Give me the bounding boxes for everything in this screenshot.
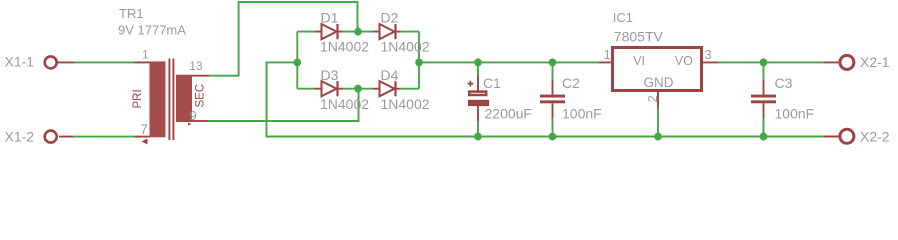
- svg-text:9: 9: [190, 109, 197, 123]
- svg-text:1N4002: 1N4002: [320, 39, 369, 55]
- svg-text:3: 3: [705, 48, 712, 62]
- svg-text:C1: C1: [483, 75, 501, 91]
- svg-text:SEC: SEC: [195, 84, 207, 108]
- svg-text:9V 1777mA: 9V 1777mA: [118, 23, 186, 38]
- svg-text:IC1: IC1: [613, 10, 633, 25]
- svg-text:D4: D4: [381, 67, 399, 83]
- svg-text:1: 1: [604, 48, 611, 62]
- svg-text:X1-2: X1-2: [5, 129, 35, 145]
- svg-text:1N4002: 1N4002: [381, 96, 430, 112]
- svg-text:C3: C3: [775, 75, 793, 91]
- svg-text:D3: D3: [321, 67, 339, 83]
- svg-text:7: 7: [140, 122, 148, 137]
- svg-text:2: 2: [645, 95, 660, 102]
- svg-text:7805TV: 7805TV: [614, 28, 664, 44]
- svg-text:GND: GND: [644, 75, 674, 90]
- svg-text:100nF: 100nF: [775, 106, 815, 122]
- svg-text:VO: VO: [675, 54, 693, 68]
- svg-text:100nF: 100nF: [562, 106, 602, 122]
- svg-text:X2-2: X2-2: [860, 128, 890, 144]
- svg-text:X2-1: X2-1: [860, 54, 890, 70]
- svg-text:TR1: TR1: [119, 6, 144, 21]
- svg-text:13: 13: [189, 59, 203, 73]
- svg-text:PRI: PRI: [132, 89, 144, 108]
- svg-text:VI: VI: [633, 54, 645, 68]
- svg-text:1N4002: 1N4002: [320, 96, 369, 112]
- svg-text:1: 1: [142, 48, 149, 62]
- svg-text:2200uF: 2200uF: [485, 106, 532, 122]
- svg-text:D1: D1: [321, 10, 339, 26]
- svg-text:X1-1: X1-1: [5, 54, 35, 70]
- svg-text:1N4002: 1N4002: [381, 39, 430, 55]
- svg-text:D2: D2: [381, 10, 399, 26]
- svg-text:C2: C2: [562, 75, 580, 91]
